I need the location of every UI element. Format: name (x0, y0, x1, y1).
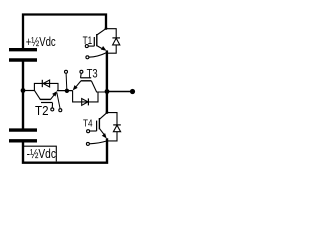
T2 gate terminal (51, 108, 54, 111)
diode D4 cathode bar (113, 124, 121, 126)
svg-text:-½Vdc: -½Vdc (27, 147, 56, 161)
capacitor C2 top plate (9, 128, 37, 131)
T4 aux emitter lead (89, 141, 107, 144)
terminal output dot (130, 89, 135, 94)
T2 emitter arrowhead (52, 91, 57, 96)
T1 aux emitter lead (89, 53, 107, 58)
T1 gate lead (89, 45, 95, 47)
transistor T1 body bar (96, 34, 98, 46)
wire left bus to bottom rail to right bus (23, 138, 107, 163)
T3 emitter arrowhead (73, 85, 78, 90)
T1 emitter lead (97, 46, 105, 50)
wire right bus upper (T1 emitter to T4 collector node) (106, 50, 108, 112)
wire D3 loop left leg and bottom (73, 91, 98, 102)
T3 aux emitter lead (65, 73, 68, 89)
wire D4 branch top (107, 113, 117, 125)
svg-text:T1: T1 (83, 35, 93, 47)
T4 gate lead (90, 130, 97, 132)
T2 aux emitter terminal (59, 109, 62, 112)
wire top rail from left bus to T1 collector node (23, 15, 106, 50)
T4 aux emitter terminal (86, 142, 89, 145)
T1 collector lead (97, 29, 106, 35)
capacitor C1 bottom plate (9, 58, 37, 61)
diode D1 cathode bar (112, 37, 120, 39)
diode D3 cathode bar (87, 98, 89, 105)
T3 gate lead (80, 73, 83, 78)
T3 aux emitter terminal (65, 70, 68, 73)
T2 aux emitter lead (57, 93, 60, 109)
wire D1 branch bottom (108, 45, 117, 53)
T4 gate terminal (87, 130, 90, 133)
svg-text:+½Vdc: +½Vdc (26, 35, 56, 49)
T2 gate lead (51, 103, 53, 108)
T1 aux emitter terminal (86, 56, 89, 59)
svg-text:T4: T4 (83, 118, 93, 130)
node T1 collector junction (105, 27, 108, 30)
T3 collector lead (91, 81, 106, 92)
transistor T3 body bar (81, 80, 92, 82)
wire D2 loop (34, 83, 58, 90)
transistor T4 gate bar (96, 121, 98, 132)
wire D1 branch top (106, 29, 116, 38)
capacitor C1 top plate (9, 48, 37, 51)
diode D2 triangle (43, 80, 49, 87)
capacitor C2 bottom plate (9, 139, 37, 142)
wire midpoint to T2 collector node (23, 90, 35, 92)
diode D4 triangle (113, 125, 120, 132)
node DC midpoint junction (21, 88, 26, 93)
T3 gate terminal (80, 70, 83, 73)
node output junction (105, 89, 110, 94)
diode D1 triangle (113, 38, 120, 45)
svg-text:T2: T2 (35, 103, 49, 118)
diode D2 cathode bar (41, 80, 43, 87)
T2 emitter lead (51, 93, 56, 100)
wire left bus between capacitors (22, 62, 24, 130)
T4 emitter arrowhead (102, 133, 107, 138)
svg-text:T3: T3 (87, 67, 98, 81)
box around -1/2Vdc label (24, 146, 56, 161)
transistor T4 body bar (98, 118, 100, 129)
T1 emitter arrowhead (101, 46, 107, 51)
T1 gate terminal (85, 45, 88, 48)
node aux emitter tap dot (65, 89, 69, 93)
transistor T2 body bar (40, 98, 51, 100)
transistor T2 gate bar (41, 102, 53, 104)
T3 emitter lead (75, 81, 81, 88)
T4 emitter lead (99, 128, 104, 135)
wire output stub (107, 91, 132, 93)
diode D3 triangle (82, 99, 88, 106)
wire T2-T3 common emitter link (57, 90, 73, 92)
wire D4 branch bottom (108, 132, 118, 141)
T2 collector lead (35, 91, 41, 100)
transistor T3 gate bar (80, 77, 91, 79)
node T4 collector junction (106, 111, 109, 114)
T4 collector lead (99, 113, 107, 120)
transistor T1 gate bar (93, 37, 95, 46)
